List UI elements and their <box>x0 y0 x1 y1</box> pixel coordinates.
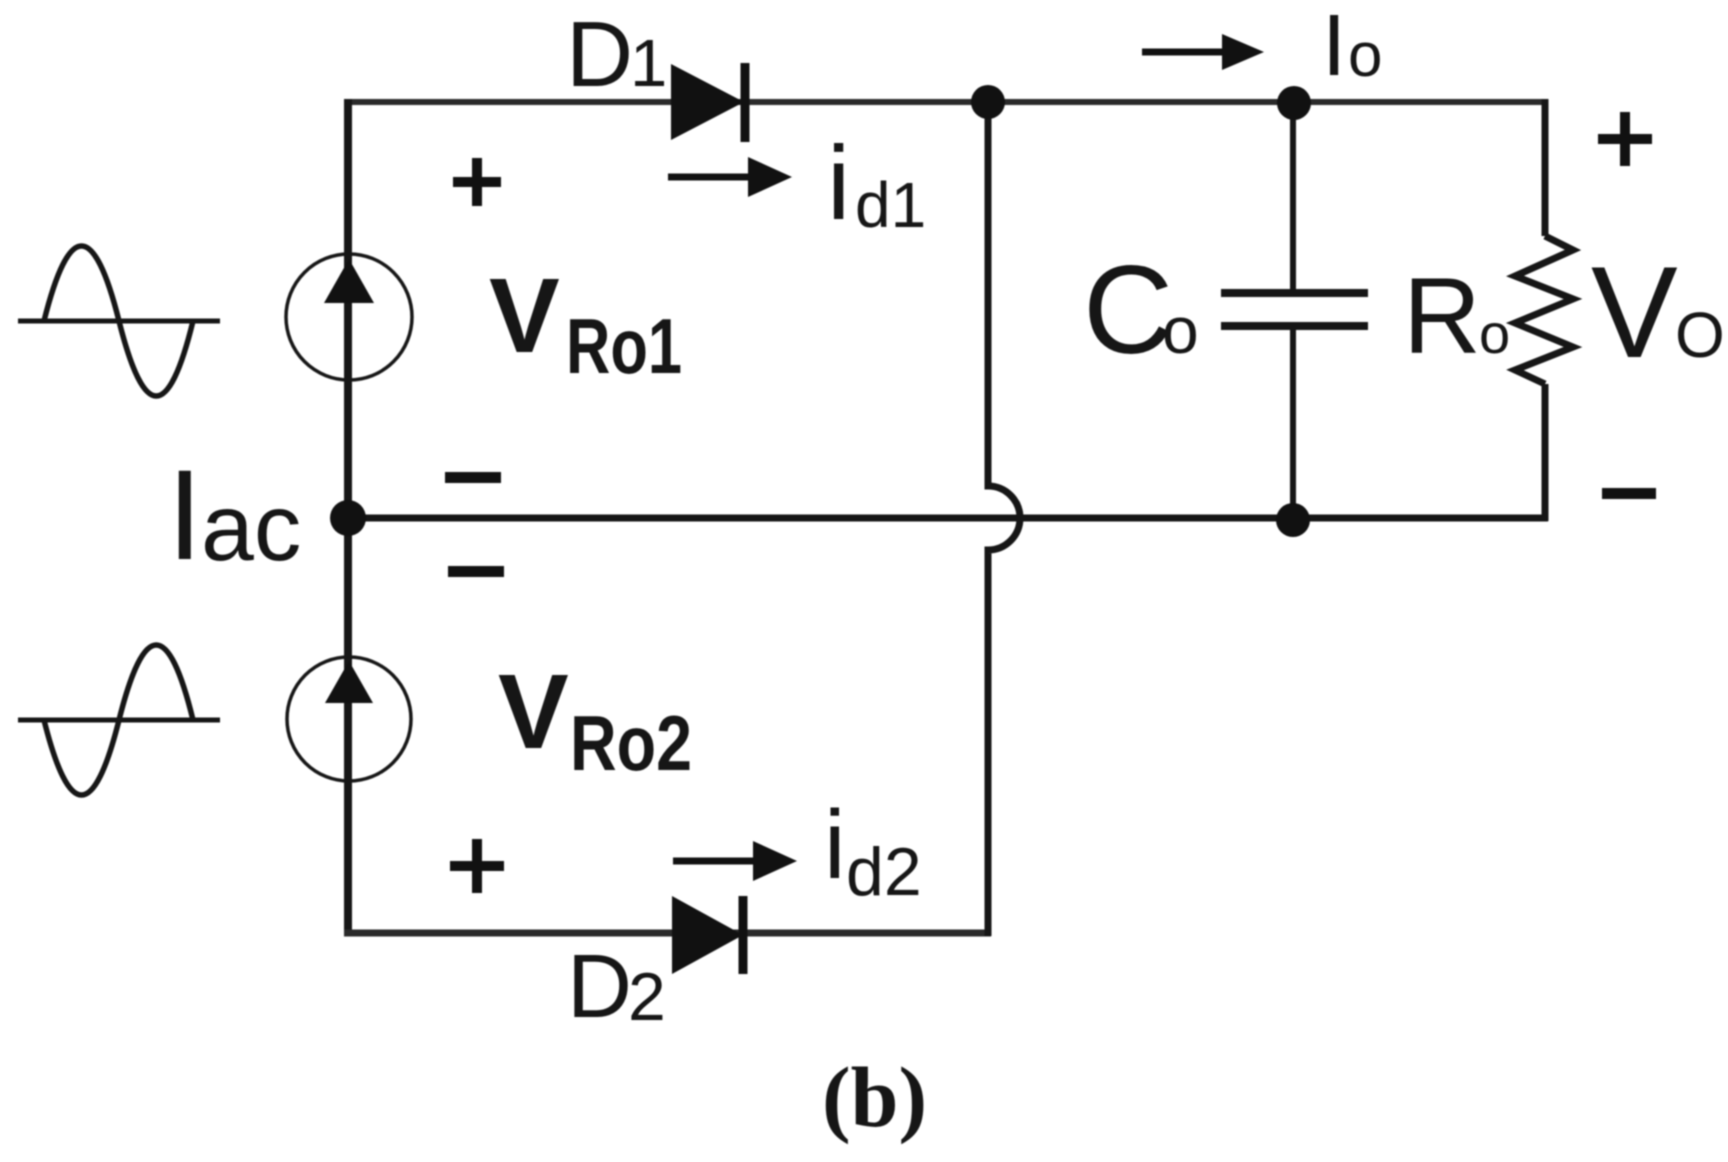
svg-text:Ro1: Ro1 <box>566 302 682 390</box>
label id2 <box>824 790 922 910</box>
svg-text:I: I <box>1322 0 1346 94</box>
wire right vertical upper <box>1542 99 1549 236</box>
source circle 2 (VRo2) <box>287 657 411 781</box>
svg-text:d1: d1 <box>855 169 926 241</box>
svg-text:I: I <box>167 444 203 587</box>
label D1 <box>566 2 667 106</box>
wire bottom horizontal <box>344 930 991 937</box>
svg-text:D: D <box>567 937 632 1037</box>
svg-text:i: i <box>824 790 846 899</box>
arrow id1 <box>668 157 792 197</box>
label D2 <box>567 937 666 1037</box>
node dot top capacitor <box>1277 86 1311 120</box>
svg-text:o: o <box>1348 21 1382 90</box>
resistor Ro zigzag <box>1515 236 1573 384</box>
plus sign lower left <box>450 839 504 893</box>
arrow id2 <box>673 841 797 881</box>
wire center vertical with hop over middle wire <box>988 99 1020 936</box>
minus sign right <box>1602 488 1656 499</box>
svg-text:(b): (b) <box>822 1049 927 1145</box>
capacitor Co plates <box>1221 289 1368 297</box>
svg-text:V: V <box>1591 239 1678 385</box>
wire capacitor branch lower <box>1290 326 1296 521</box>
sine wave symbol 1 <box>18 246 220 396</box>
node dot Iac <box>330 500 366 536</box>
wire middle horizontal (Iac node to right corner) <box>348 515 1548 522</box>
label id1 <box>827 125 926 242</box>
diode D2 <box>672 896 743 974</box>
wire capacitor branch upper <box>1290 99 1296 293</box>
node dot top center <box>971 85 1005 119</box>
source 2 arrowhead <box>325 661 373 703</box>
plus sign upper left <box>453 158 501 206</box>
wire left vertical <box>344 99 352 936</box>
minus sign below middle wire <box>448 566 504 577</box>
arrow Io <box>1142 34 1264 70</box>
svg-text:ac: ac <box>201 475 301 581</box>
wire top horizontal <box>345 99 1548 105</box>
svg-text:o: o <box>1162 293 1199 367</box>
minus sign above middle wire <box>445 472 501 483</box>
sine wave symbol 2 <box>18 645 220 795</box>
svg-text:o: o <box>1479 302 1510 365</box>
label Ro <box>1403 255 1510 376</box>
svg-text:R: R <box>1403 255 1481 376</box>
svg-text:2: 2 <box>628 959 666 1035</box>
plus sign right <box>1598 112 1652 166</box>
label Vo <box>1591 239 1725 385</box>
svg-text:V: V <box>489 257 560 375</box>
diode D1 <box>671 63 745 142</box>
svg-text:i: i <box>827 125 850 242</box>
svg-text:C: C <box>1083 241 1173 380</box>
svg-text:V: V <box>498 653 569 771</box>
node dot bottom capacitor <box>1276 503 1310 537</box>
label Co <box>1083 241 1199 380</box>
wire right vertical lower <box>1542 384 1549 521</box>
label Iac <box>167 444 301 587</box>
svg-text:1: 1 <box>630 26 667 101</box>
source 1 arrowhead <box>324 259 374 303</box>
svg-text:O: O <box>1675 299 1725 371</box>
svg-text:d2: d2 <box>846 834 922 910</box>
label Io <box>1322 0 1382 94</box>
label VRo1 <box>489 257 682 390</box>
svg-text:Ro2: Ro2 <box>570 699 692 787</box>
svg-text:D: D <box>566 2 633 106</box>
source circle 1 (VRo1) <box>286 254 412 380</box>
label VRo2 <box>498 653 692 787</box>
